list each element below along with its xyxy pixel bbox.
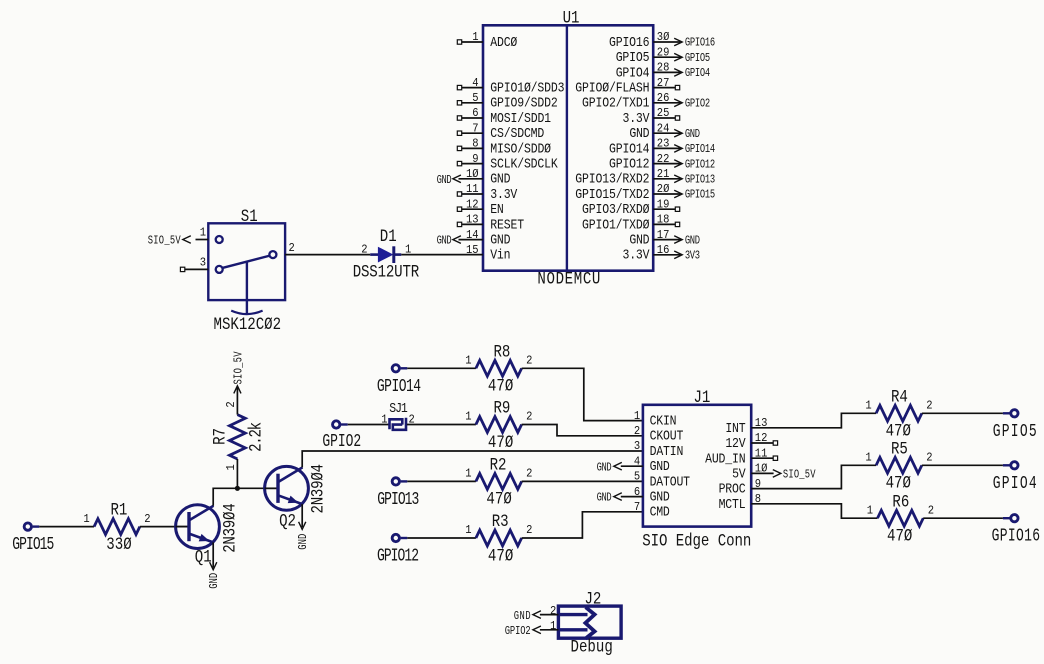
wire R2 pin2 to J1 pin5 DATOUT <box>522 480 643 482</box>
svg-text:J1: J1 <box>694 388 711 408</box>
svg-text:2: 2 <box>526 410 532 424</box>
svg-text:RESET: RESET <box>490 218 524 233</box>
svg-text:3.3V: 3.3V <box>623 248 650 263</box>
wire S1 pin2 to D1 anode <box>285 254 370 256</box>
svg-text:GND: GND <box>650 459 670 474</box>
power flag SIO_5V at J1 pin10 <box>751 468 816 482</box>
wire GPIO14 to R8 pin1 <box>407 367 476 369</box>
wire GPIO12 to R3 pin1 <box>407 537 476 539</box>
ground flag GND at J2 pin2 <box>514 610 559 624</box>
svg-text:1: 1 <box>465 467 471 481</box>
svg-text:Q2: Q2 <box>279 511 296 531</box>
wire GPIO13 to R2 pin1 <box>407 480 476 482</box>
net GPIO4 flag at U1 right <box>653 67 710 81</box>
solder jumper SJ1 <box>381 401 415 430</box>
svg-text:SIO_5V: SIO_5V <box>148 235 182 249</box>
svg-text:3: 3 <box>634 439 640 453</box>
svg-text:3.3V: 3.3V <box>623 111 650 126</box>
svg-text:GND: GND <box>208 573 222 589</box>
svg-text:GPIO15/TXD2: GPIO15/TXD2 <box>575 187 649 202</box>
svg-text:R5: R5 <box>891 439 908 459</box>
ground flag GND at J1 pin6 <box>597 492 643 506</box>
wire node A to R7 pin1 <box>236 459 238 488</box>
svg-text:2: 2 <box>634 424 640 438</box>
svg-text:S1: S1 <box>241 207 258 227</box>
ground flag GND at U1 left <box>437 235 483 249</box>
svg-text:3: 3 <box>200 256 206 270</box>
IC U1 NODEMCU module <box>457 8 679 289</box>
svg-text:GPIO14: GPIO14 <box>377 376 421 397</box>
power flag SIO_5V at R7 top <box>232 351 246 385</box>
wire R7 pin2 to power arrow <box>234 386 241 415</box>
svg-text:GPIO16: GPIO16 <box>685 37 715 51</box>
svg-text:DSS12UTR: DSS12UTR <box>353 262 420 282</box>
port GPIO5 <box>993 410 1037 442</box>
svg-text:MOSI/SDD1: MOSI/SDD1 <box>490 111 551 126</box>
svg-text:1: 1 <box>865 451 871 465</box>
svg-text:9: 9 <box>472 152 478 166</box>
svg-text:2: 2 <box>526 523 532 537</box>
svg-text:GPIO1Ø/SDD3: GPIO1Ø/SDD3 <box>490 81 564 96</box>
svg-text:2: 2 <box>224 401 238 407</box>
svg-text:GPIO16: GPIO16 <box>609 35 650 50</box>
wire Q2 collector to J1 pin3 DATIN <box>302 451 643 467</box>
svg-text:47Ø: 47Ø <box>486 489 511 509</box>
svg-text:GPIO1/TXDØ: GPIO1/TXDØ <box>582 218 650 233</box>
svg-text:2: 2 <box>144 512 150 526</box>
svg-text:GPIO12: GPIO12 <box>377 545 419 566</box>
svg-text:GPIO4: GPIO4 <box>685 67 710 81</box>
svg-text:1: 1 <box>381 413 387 427</box>
svg-text:2: 2 <box>526 354 532 368</box>
svg-text:GND: GND <box>629 233 649 248</box>
connector J2 Debug <box>550 589 621 657</box>
svg-text:2: 2 <box>289 241 295 255</box>
svg-text:GPIO4: GPIO4 <box>616 66 650 81</box>
resistor R5 470 <box>865 439 932 493</box>
ground flag GND at U1 left <box>437 174 483 188</box>
svg-text:GND: GND <box>437 174 452 188</box>
svg-text:2: 2 <box>526 467 532 481</box>
svg-text:2N39Ø4: 2N39Ø4 <box>220 503 240 553</box>
svg-text:1: 1 <box>634 409 640 423</box>
port GPIO12 <box>377 534 419 566</box>
resistor R2 470 <box>465 455 532 509</box>
wire SJ1 pin2 to R9 pin1 <box>407 424 476 426</box>
wire D1 cathode to U1 pin15 Vin <box>401 254 483 256</box>
power flag SIO_5V at S1 pin 1 <box>148 235 191 249</box>
svg-text:GPIO13: GPIO13 <box>377 489 419 510</box>
svg-text:5V: 5V <box>732 467 746 482</box>
svg-text:MISO/SDDØ: MISO/SDDØ <box>490 142 551 157</box>
svg-text:GPIO2/TXD1: GPIO2/TXD1 <box>582 96 650 111</box>
svg-text:GND: GND <box>597 461 612 475</box>
port GPIO13 <box>377 478 419 510</box>
svg-text:Debug: Debug <box>571 637 613 657</box>
svg-text:ADCØ: ADCØ <box>490 35 517 50</box>
svg-text:GPIO4: GPIO4 <box>993 473 1037 494</box>
svg-text:AUD_IN: AUD_IN <box>705 452 746 467</box>
ground flag GND at J1 pin4 <box>597 461 643 475</box>
wire R3 pin2 to J1 pin7 CMD <box>522 512 643 538</box>
svg-text:1: 1 <box>867 504 873 518</box>
svg-text:GPIOØ/FLASH: GPIOØ/FLASH <box>575 81 649 96</box>
net 3V3 flag at U1 right <box>653 249 700 263</box>
port GPIO16 <box>992 515 1041 547</box>
port GPIO2 <box>322 421 361 452</box>
wire R5 pin2 to GPIO4 <box>922 464 1003 466</box>
resistor R4 470 <box>865 387 932 441</box>
port GPIO4 <box>993 462 1037 494</box>
svg-text:SIO_5V: SIO_5V <box>783 468 816 482</box>
svg-text:D1: D1 <box>380 227 397 247</box>
svg-text:11: 11 <box>466 182 479 196</box>
svg-text:SJ1: SJ1 <box>389 401 408 416</box>
svg-text:47Ø: 47Ø <box>488 376 513 396</box>
net GND flag at U1 right <box>653 234 700 248</box>
svg-text:GPIO2: GPIO2 <box>685 97 710 111</box>
svg-text:DATIN: DATIN <box>650 444 684 459</box>
wire R6 pin2 to GPIO16 <box>923 517 1003 519</box>
svg-text:PROC: PROC <box>719 482 746 497</box>
svg-text:GPIO2: GPIO2 <box>322 431 361 452</box>
svg-text:GPIO13/RXD2: GPIO13/RXD2 <box>575 172 649 187</box>
svg-text:Q1: Q1 <box>195 547 212 567</box>
svg-text:GPIO5: GPIO5 <box>993 421 1037 442</box>
svg-text:EN: EN <box>490 202 504 217</box>
svg-text:47Ø: 47Ø <box>488 546 513 566</box>
wire Q1 collector to node A (R7 bottom / Q2 base) <box>213 488 278 505</box>
svg-text:47Ø: 47Ø <box>886 421 911 441</box>
svg-text:SIO Edge Conn: SIO Edge Conn <box>642 531 751 551</box>
ground flag GND at Q1 emitter <box>208 573 222 589</box>
svg-text:GPIO3/RXDØ: GPIO3/RXDØ <box>582 202 650 217</box>
wire J1 pin8 MCTL to R6 pin1 <box>751 504 877 518</box>
svg-text:R7: R7 <box>210 428 230 445</box>
svg-text:GPIO5: GPIO5 <box>685 52 710 66</box>
wire GPIO15 to R1 pin1 <box>39 526 94 528</box>
svg-text:GND: GND <box>490 172 510 187</box>
switch S1 MSK12C02 <box>180 207 295 335</box>
svg-text:2.2k: 2.2k <box>246 422 266 452</box>
svg-text:MSK12CØ2: MSK12CØ2 <box>214 315 282 335</box>
wire R9 pin2 to J1 pin2 CKOUT <box>522 425 643 436</box>
svg-text:1: 1 <box>865 399 871 413</box>
svg-text:47Ø: 47Ø <box>887 526 912 546</box>
svg-text:CKOUT: CKOUT <box>650 429 684 444</box>
svg-text:NODEMCU: NODEMCU <box>537 269 600 289</box>
svg-text:R6: R6 <box>892 492 909 512</box>
svg-text:2N39Ø4: 2N39Ø4 <box>308 464 328 514</box>
svg-text:GPIO12: GPIO12 <box>609 157 650 172</box>
svg-text:SIO_5V: SIO_5V <box>232 351 246 385</box>
svg-text:SCLK/SDCLK: SCLK/SDCLK <box>490 157 558 172</box>
svg-text:GND: GND <box>685 128 700 142</box>
transistor Q1 2N3904 <box>176 503 241 567</box>
svg-text:5: 5 <box>634 470 640 484</box>
svg-text:Vin: Vin <box>490 248 510 263</box>
resistor R8 470 <box>465 342 532 396</box>
svg-text:GPIO9/SDD2: GPIO9/SDD2 <box>490 96 558 111</box>
svg-text:R2: R2 <box>490 455 507 475</box>
svg-text:CKIN: CKIN <box>650 414 677 429</box>
wire J1 pin13 INT to R4 pin1 <box>751 413 876 428</box>
diode D1 DSS12UTR <box>353 227 420 282</box>
svg-text:2: 2 <box>550 604 556 618</box>
svg-text:R9: R9 <box>494 398 511 418</box>
wire R8 pin2 to J1 pin1 CKIN <box>522 368 643 420</box>
svg-text:8: 8 <box>472 137 478 151</box>
svg-text:GPIO5: GPIO5 <box>616 50 650 65</box>
wire R1 pin2 to Q1 base <box>140 526 189 528</box>
svg-text:R3: R3 <box>492 512 509 532</box>
svg-text:1: 1 <box>200 226 206 240</box>
svg-text:CS/SDCMD: CS/SDCMD <box>490 126 544 141</box>
svg-text:1: 1 <box>550 619 556 633</box>
svg-text:1: 1 <box>465 523 471 537</box>
svg-text:GND: GND <box>629 126 649 141</box>
svg-text:1: 1 <box>472 30 478 44</box>
net GPIO2 flag at J2 pin1 <box>505 625 559 639</box>
port GPIO15 <box>12 523 54 555</box>
svg-text:MCTL: MCTL <box>719 497 746 512</box>
resistor R1 330 <box>83 500 150 554</box>
wire R4 pin2 to GPIO5 <box>922 412 1003 414</box>
svg-text:CMD: CMD <box>650 505 670 520</box>
net GPIO14 flag at U1 right <box>653 143 715 157</box>
net GPIO2 flag at U1 right <box>653 97 710 111</box>
svg-text:47Ø: 47Ø <box>488 433 513 453</box>
svg-text:1: 1 <box>224 464 238 470</box>
svg-text:2: 2 <box>928 504 934 518</box>
svg-text:6: 6 <box>472 106 478 120</box>
svg-text:7: 7 <box>472 122 478 136</box>
svg-text:13: 13 <box>466 213 479 227</box>
svg-text:GND: GND <box>514 610 531 624</box>
svg-text:5: 5 <box>472 91 478 105</box>
svg-text:INT: INT <box>725 421 746 436</box>
ground flag GND at Q2 emitter <box>297 534 311 550</box>
net GPIO15 flag at U1 right <box>653 189 715 203</box>
svg-text:GND: GND <box>685 234 700 248</box>
resistor R9 470 <box>465 398 532 452</box>
svg-text:GPIO14: GPIO14 <box>685 143 715 157</box>
wire Q1 emitter to ground arrow <box>210 542 217 569</box>
connector J1 SIO Edge Conn <box>634 388 778 551</box>
svg-text:GPIO15: GPIO15 <box>685 189 715 203</box>
svg-text:U1: U1 <box>563 8 580 28</box>
svg-text:R1: R1 <box>111 500 128 520</box>
svg-text:1: 1 <box>465 410 471 424</box>
svg-text:33Ø: 33Ø <box>106 535 131 555</box>
svg-text:3V3: 3V3 <box>685 249 700 263</box>
svg-text:2: 2 <box>926 451 932 465</box>
svg-text:GND: GND <box>297 534 311 550</box>
wire J1 pin9 PROC to R5 pin1 <box>751 465 876 488</box>
svg-text:R8: R8 <box>494 342 511 362</box>
svg-text:GND: GND <box>490 233 510 248</box>
svg-text:GPIO15: GPIO15 <box>12 534 54 555</box>
net GPIO12 flag at U1 right <box>653 158 715 172</box>
svg-text:GPIO12: GPIO12 <box>685 158 715 172</box>
svg-text:DATOUT: DATOUT <box>650 475 691 490</box>
svg-text:GPIO13: GPIO13 <box>685 173 715 187</box>
net GPIO13 flag at U1 right <box>653 173 715 187</box>
svg-text:12: 12 <box>466 198 479 212</box>
svg-text:47Ø: 47Ø <box>886 473 911 493</box>
transistor Q2 2N3904 <box>265 464 328 531</box>
svg-text:GND: GND <box>597 492 612 506</box>
port GPIO14 <box>377 365 421 397</box>
net GPIO16 flag at U1 right <box>653 37 715 51</box>
svg-text:2: 2 <box>926 399 932 413</box>
resistor R3 470 <box>465 512 532 566</box>
svg-text:GPIO14: GPIO14 <box>609 142 650 157</box>
svg-text:GPIO16: GPIO16 <box>992 526 1041 547</box>
wire Q2 emitter to ground arrow <box>299 504 306 529</box>
net GND flag at U1 right <box>653 128 700 142</box>
svg-text:GND: GND <box>650 490 670 505</box>
svg-text:7: 7 <box>634 500 640 514</box>
junction node A <box>235 486 240 491</box>
wire GPIO2 to SJ1 pin1 <box>348 424 389 426</box>
resistor R7 2.2k vertical <box>210 401 266 470</box>
svg-text:3.3V: 3.3V <box>490 187 517 202</box>
svg-text:GPIO2: GPIO2 <box>505 625 531 639</box>
svg-text:1: 1 <box>83 512 89 526</box>
net GPIO5 flag at U1 right <box>653 52 710 66</box>
svg-text:12V: 12V <box>725 436 746 451</box>
svg-text:R4: R4 <box>891 387 908 407</box>
svg-text:4: 4 <box>472 76 478 90</box>
resistor R6 470 <box>867 492 934 546</box>
svg-text:1: 1 <box>465 354 471 368</box>
svg-text:GND: GND <box>437 235 452 249</box>
